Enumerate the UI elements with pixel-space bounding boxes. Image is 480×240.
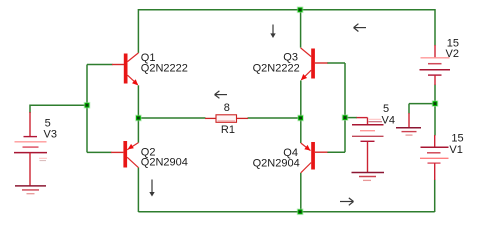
battery V1 bbox=[420, 132, 464, 180]
transistor Q1 bbox=[112, 52, 188, 85]
battery V4 bbox=[352, 103, 395, 173]
junction top rail / Q3 collector bbox=[297, 7, 304, 14]
wire Q3 base horizontal bbox=[327, 62, 345, 64]
current arrow left (above R1) bbox=[215, 91, 227, 98]
wire V2 top pin green part bbox=[434, 9, 436, 46]
wire V3 top pin green part bbox=[29, 105, 31, 114]
wire middle ground stub bbox=[408, 104, 410, 114]
wire node to middle ground horizontal bbox=[409, 103, 435, 105]
svg-text:R1: R1 bbox=[221, 124, 235, 136]
wire top rail bbox=[138, 9, 435, 11]
svg-text:V4: V4 bbox=[382, 114, 395, 126]
svg-text:Q2N2904: Q2N2904 bbox=[253, 157, 300, 169]
svg-text:Q2N2904: Q2N2904 bbox=[141, 157, 188, 169]
svg-text:V1: V1 bbox=[449, 144, 462, 156]
wire bottom rail bbox=[138, 211, 434, 213]
wire left rail upper (Q1 collector to top rail) bbox=[137, 9, 139, 53]
svg-text:V2: V2 bbox=[446, 48, 459, 60]
svg-text:8: 8 bbox=[224, 102, 230, 114]
svg-text:V3: V3 bbox=[44, 128, 57, 140]
wire left base column vertical bbox=[86, 65, 88, 153]
transistor Q2 bbox=[111, 141, 188, 169]
ground at V2-V1 node bbox=[396, 113, 421, 135]
junction left base column / V3 bbox=[84, 102, 91, 109]
wire V3 to left base column bbox=[30, 104, 87, 106]
wire right base column vertical bbox=[344, 63, 346, 152]
wire right rail middle (Q3 emitter to Q4 emitter) bbox=[300, 80, 302, 143]
wire left rail lower (Q2 collector to bottom rail) bbox=[137, 168, 139, 213]
current arrow down (top middle) bbox=[270, 25, 275, 39]
junction left rail / R1 row bbox=[135, 115, 142, 122]
svg-text:15: 15 bbox=[451, 132, 463, 144]
wire Q2 base horizontal bbox=[87, 151, 112, 153]
wire left rail middle (Q1 emitter to Q2 emitter) bbox=[137, 85, 139, 142]
battery V3 bbox=[14, 112, 57, 186]
wire R1 row right segment bbox=[248, 117, 301, 119]
wire right rail upper (top rail to Q3 collector) bbox=[300, 10, 302, 48]
wire right base column to V4 bbox=[345, 117, 357, 119]
transistor Q4 bbox=[253, 142, 328, 173]
wire Q1 base horizontal bbox=[87, 64, 113, 66]
junction right rail / R1 row bbox=[297, 115, 304, 122]
wire right rail lower (Q4 collector to bottom rail) bbox=[300, 173, 302, 212]
ground below V3 bbox=[15, 186, 46, 194]
resistor R1 bbox=[205, 102, 248, 136]
current arrow right (bottom) bbox=[340, 198, 354, 205]
wire R1 row left segment bbox=[138, 117, 205, 119]
wire V2 bottom to node column bbox=[434, 85, 436, 136]
ground below V4 bbox=[352, 173, 385, 181]
battery V2 bbox=[420, 37, 460, 85]
transistor Q3 bbox=[253, 48, 328, 80]
svg-text:Q2N2222: Q2N2222 bbox=[141, 63, 188, 75]
junction V2-V1 node bbox=[432, 100, 439, 107]
current arrow down (below Q2) bbox=[149, 180, 154, 197]
junction bottom rail / Q4 collector bbox=[297, 209, 304, 216]
svg-text:Q2N2222: Q2N2222 bbox=[253, 63, 300, 75]
current arrow left (top right) bbox=[354, 24, 366, 32]
wire Q4 base horizontal bbox=[327, 151, 345, 153]
junction right base column / V4 bbox=[342, 114, 349, 121]
wire V1 bottom pin green part bbox=[434, 180, 436, 213]
svg-text:5: 5 bbox=[383, 103, 389, 115]
